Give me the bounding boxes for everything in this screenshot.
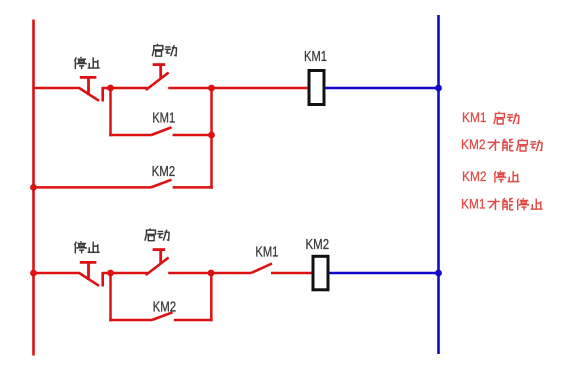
- wire rung2 between stop and start: [103, 272, 148, 275]
- wire rung1 from start to coil KM1: [168, 87, 307, 90]
- KM2 interlock contact row wire left: [34, 186, 152, 189]
- svg-text:KM2: KM2: [462, 169, 487, 184]
- KM2 interlock contact blade: [151, 180, 172, 188]
- stop button SB3 actuator T-bar: [80, 261, 97, 264]
- junction node KM2 interlock row at bus: [30, 184, 37, 191]
- junction node rung2 / latch branch right: [208, 270, 215, 277]
- stop button SB1 fixed contact tick: [101, 87, 104, 102]
- KM2 interlock contact row wire right: [173, 186, 213, 189]
- KM1 auxiliary latch contact row wire right: [173, 134, 212, 137]
- junction node rung1 at blue bus: [435, 85, 442, 92]
- right branch vertical wire rung1: [210, 88, 213, 189]
- start button SB2 actuator T-bar: [153, 63, 166, 66]
- wire rung1 left segment: [34, 87, 81, 90]
- start button SB2 启动 (NO pushbutton) contact bridge: [146, 73, 169, 91]
- stop button SB3 fixed contact tick: [101, 272, 104, 287]
- start button SB4 启动 (NO pushbutton) contact bridge: [146, 258, 169, 276]
- svg-text:KM1: KM1: [461, 197, 486, 212]
- stop button SB1 停止 (NC pushbutton) contact bridge: [79, 88, 99, 101]
- left supply bus L (red vertical line): [32, 20, 35, 356]
- annotation line 1: KM1 启动: [462, 110, 519, 125]
- KM2 latch contact row wire left: [109, 319, 152, 322]
- svg-text:KM1: KM1: [255, 245, 278, 261]
- junction node latch row / right branch: [208, 132, 215, 139]
- svg-text:KM2: KM2: [153, 299, 177, 315]
- svg-text:KM1: KM1: [152, 111, 175, 127]
- junction node rung1 / interlock branch top: [208, 85, 215, 92]
- junction node rung2 at red bus: [30, 270, 37, 277]
- junction node rung2 / latch branch: [107, 270, 114, 277]
- latch branch 2 left vertical wire: [109, 273, 112, 321]
- latch branch 2 right vertical wire: [210, 273, 213, 321]
- svg-text:KM1: KM1: [462, 110, 487, 125]
- annotation line 3: KM2 停止: [462, 169, 519, 184]
- label 启动 for SB2: [152, 44, 177, 56]
- wire rung2 from KM1 contact to coil KM2: [271, 272, 312, 275]
- start button SB4 actuator T-bar: [153, 248, 166, 251]
- junction node rung1 / latch branch: [107, 85, 114, 92]
- label 停止 for SB3: [75, 241, 100, 253]
- latch branch left vertical wire: [109, 88, 112, 136]
- label 启动 for SB4: [145, 228, 170, 240]
- junction node rung2 at blue bus: [435, 270, 442, 277]
- start button SB4 actuator stem: [159, 250, 162, 264]
- KM1 series interlock contact blade: [251, 264, 272, 274]
- wire rung2 blue segment to bus: [330, 272, 439, 275]
- KM2 latch contact row wire right: [174, 319, 213, 322]
- annotation line 4: KM1才能停止: [461, 197, 543, 212]
- right neutral bus N (blue vertical line): [437, 15, 440, 354]
- svg-text:KM2: KM2: [461, 137, 486, 152]
- wire rung1 between stop and start: [103, 87, 148, 90]
- KM1 auxiliary latch contact blade: [151, 127, 171, 135]
- wire rung1 blue segment to bus: [326, 87, 439, 90]
- KM2 latch contact blade: [152, 312, 173, 320]
- KM1 auxiliary latch contact row wire left: [109, 134, 151, 137]
- coil KM2: [313, 256, 328, 290]
- svg-text:KM1: KM1: [304, 49, 327, 65]
- start button SB2 actuator stem: [159, 65, 162, 79]
- coil KM1: [309, 71, 324, 105]
- stop button SB3 actuator stem: [87, 262, 90, 280]
- svg-text:KM2: KM2: [152, 164, 176, 180]
- wire rung2 left segment: [34, 272, 81, 275]
- wire rung2 from start to KM1 contact: [168, 272, 251, 275]
- stop button SB1 actuator stem: [87, 77, 90, 95]
- stop button SB3 停止 (NC pushbutton) contact bridge: [79, 273, 99, 286]
- label 停止 for SB1: [75, 57, 100, 69]
- stop button SB1 actuator T-bar: [80, 76, 97, 79]
- svg-text:KM2: KM2: [306, 237, 330, 253]
- annotation line 2: KM2才能启动: [461, 137, 542, 152]
